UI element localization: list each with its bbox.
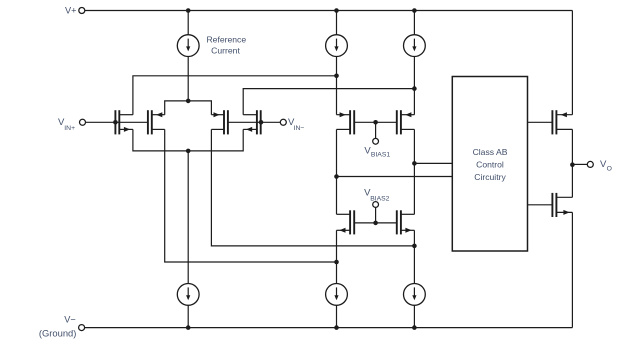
svg-text:IN−: IN− [294, 125, 305, 132]
junction bottom rail / I4 [186, 325, 191, 330]
current source I2 [326, 35, 348, 57]
wire class AB box to Q9 gate [528, 121, 553, 123]
svg-text:Class AB: Class AB [473, 147, 508, 157]
wire node B to class AB box [414, 162, 452, 164]
terminal VBIAS2 [373, 202, 379, 208]
wire right side from V+ rail down to output PMOS source [571, 11, 573, 115]
terminal V+ [79, 8, 85, 14]
terminal VIN+ [80, 119, 86, 125]
svg-text:BIAS1: BIAS1 [371, 152, 390, 159]
transistor Q10 (NMOS output) [551, 193, 553, 217]
junction N3 at current source I5 [334, 260, 339, 265]
wire PMOS pair tail (node T1) [165, 101, 212, 115]
svg-text:O: O [607, 165, 612, 172]
wire NMOS pair tail (node T2) [133, 129, 243, 151]
svg-text:Control: Control [476, 160, 504, 170]
transistor Q2 (PMOS input, VIN+) [147, 110, 149, 134]
junction node B tap to class AB box [412, 161, 417, 166]
wire Q2 drain down to node N3 [165, 129, 337, 262]
wire current source I4 to bottom rail [187, 306, 189, 328]
svg-text:Reference: Reference [206, 35, 246, 45]
block U1 Class AB Control Circuitry [452, 77, 527, 252]
terminal VIN- [280, 119, 286, 125]
svg-text:IN+: IN+ [64, 125, 75, 132]
wire reference current to input pair tail [187, 57, 189, 101]
wire Q5-Q6 gates (VBIAS1 net) [354, 121, 397, 123]
transistor Q1 (NMOS input, VIN+) [114, 110, 116, 134]
transistor Q5 (PMOS cascode left) [353, 110, 355, 134]
wire to VBIAS2 terminal [375, 207, 377, 223]
wire current source I2 down to cascode Q5 source [336, 57, 338, 115]
wire Q7 source down to current source I5 [336, 230, 338, 283]
junction VIN- at Q4 gate [259, 120, 264, 125]
wire Q6 drain to Q8 drain (node B) [413, 129, 415, 214]
current source I5 [326, 284, 348, 306]
wire VIN- to input gates [228, 121, 280, 123]
wire current source I2 to top rail [336, 11, 338, 35]
junction VBIAS2 gate line [373, 221, 378, 226]
junction top rail / current source I3 [412, 8, 417, 13]
junction VBIAS1 gate line [373, 120, 378, 125]
wire to VBIAS1 terminal [375, 122, 377, 138]
wire Q8 source down to current source I6 [413, 230, 415, 283]
junction N1 at current source I2 [334, 74, 339, 79]
wire Q5 drain to Q7 drain (node A) [336, 129, 338, 214]
junction top rail / current source I2 [334, 8, 339, 13]
wire Q7-Q8 gates (VBIAS2 net) [354, 222, 397, 224]
terminal V- (Ground) [79, 325, 85, 331]
junction N4 at current source I6 [412, 244, 417, 249]
transistor Q6 (PMOS cascode right) [396, 110, 398, 134]
svg-text:V−: V− [64, 315, 76, 325]
transistor Q9 (PMOS output) [551, 110, 553, 134]
current source I6 [404, 284, 426, 306]
wire NMOS tail down to current source I4 [187, 151, 189, 283]
junction top rail / reference current [186, 8, 191, 13]
terminal VBIAS1 [373, 138, 379, 144]
wire Q3 drain down to node N4 [211, 129, 414, 246]
junction PMOS pair tail [186, 99, 191, 104]
transistor Q7 (NMOS cascode left) [353, 210, 355, 234]
wire Q1 drain up to node N1 [133, 76, 337, 115]
wire current source I3 to top rail [413, 11, 415, 35]
terminal VO [587, 161, 593, 167]
junction VIN+ at Q1 gate [113, 120, 118, 125]
transistor Q3 (PMOS input, VIN-) [227, 110, 229, 134]
junction node A tap to class AB box [334, 174, 339, 179]
svg-text:Circuitry: Circuitry [474, 172, 506, 182]
junction bottom rail / I5 [334, 325, 339, 330]
svg-text:BIAS2: BIAS2 [370, 196, 389, 203]
wire Q9 drain to output node [571, 129, 573, 197]
wire current source I3 down to cascode Q6 source [413, 57, 415, 115]
wire current source I6 to bottom rail [413, 306, 415, 328]
junction N2 at current source I3 [412, 86, 417, 91]
junction bottom rail / I6 [412, 325, 417, 330]
wire bottom rail V- [85, 327, 573, 329]
wire output node to VO terminal [572, 163, 587, 165]
wire right side from bottom rail up to output NMOS source [571, 212, 573, 327]
wire class AB box to Q10 gate [528, 204, 553, 206]
wire top rail V+ [85, 10, 573, 12]
current source I1 (reference current) [177, 35, 199, 57]
svg-text:(Ground): (Ground) [39, 327, 77, 338]
wire reference current to top rail [187, 11, 189, 35]
current source I3 [404, 35, 426, 57]
transistor Q8 (NMOS cascode right) [396, 210, 398, 234]
wire Q4 drain up to node N2 [243, 89, 414, 115]
svg-text:V+: V+ [65, 6, 77, 16]
transistor Q4 (NMOS input, VIN-) [260, 110, 262, 134]
wire node A to class AB box [337, 176, 453, 178]
svg-text:Current: Current [211, 45, 240, 55]
junction NMOS pair tail [186, 149, 191, 154]
wire VIN+ to input gates [86, 121, 148, 123]
wire current source I5 to bottom rail [336, 306, 338, 328]
current source I4 (input tail) [177, 284, 199, 306]
junction output node [570, 162, 575, 167]
